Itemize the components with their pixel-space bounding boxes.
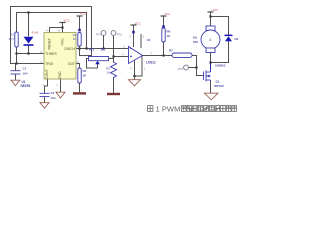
junction dot (210,16): [209, 15, 211, 17]
wire C2 stub from CONT pin: [45, 79, 48, 103]
svg-text:VCC: VCC: [80, 12, 87, 16]
caption char 4: [193, 106, 198, 112]
junction dot (196,67): [195, 66, 197, 68]
svg-text:1K: 1K: [106, 71, 110, 75]
capacitor C2: [40, 93, 50, 96]
svg-text:VCC: VCC: [135, 22, 142, 26]
capacitor C1: [11, 71, 21, 74]
op-amp U2 triangle: [129, 47, 143, 64]
svg-text:+12V: +12V: [211, 8, 218, 12]
wire OUT pin to R3: [76, 64, 80, 69]
wire power flag F2 stem: [79, 17, 81, 32]
svg-text:R3: R3: [83, 69, 87, 73]
svg-text:4K7: 4K7: [9, 37, 15, 41]
power flag F4 (R6 top): [161, 12, 172, 28]
wire D1 top drop: [28, 13, 30, 37]
svg-text:CONT: CONT: [45, 69, 49, 79]
svg-text:TRIG: TRIG: [45, 62, 53, 66]
wire pot wiper loop: [87, 59, 98, 69]
pad at R2 top: [78, 29, 81, 32]
wire motor power flag F5 stem: [210, 13, 212, 27]
svg-text:R1: R1: [10, 33, 14, 37]
terminal TP1: [101, 31, 106, 36]
wire outer loop left+top: [11, 7, 92, 64]
pad at opamp power pin: [132, 31, 135, 34]
wire opamp power stem: [133, 26, 135, 47]
svg-text:M1: M1: [193, 36, 197, 40]
junction dot (62,27): [61, 26, 63, 28]
ground G5 below mosfet: [205, 93, 219, 100]
wire gate lead: [197, 75, 204, 77]
caption char 9: [221, 106, 226, 112]
caption char 5: [198, 106, 203, 112]
pad at R6 top: [162, 25, 165, 28]
svg-text:LM311: LM311: [146, 61, 156, 65]
junction dot (163,55): [162, 54, 164, 56]
wire DISCH net y48: [76, 48, 128, 50]
junction dot (113,56): [112, 55, 114, 57]
wire R3 bottom to bar ground: [79, 83, 81, 92]
wire outer loop right vertical: [91, 7, 93, 56]
ground G1 below C1: [11, 80, 20, 85]
ground G3 below C2: [40, 103, 49, 109]
terminal TP2: [111, 31, 116, 36]
wire R2 vertical through to y55: [79, 46, 81, 56]
svg-text:Q1: Q1: [216, 80, 220, 84]
svg-text:D2: D2: [235, 37, 239, 41]
svg-text:TP3: TP3: [177, 67, 183, 71]
junction dot (16,53): [15, 52, 17, 54]
caption char 3: [187, 106, 192, 112]
svg-text:R7: R7: [169, 49, 173, 53]
svg-text:1 PWM: 1 PWM: [156, 105, 181, 114]
IC U1 NE555 body: [44, 33, 76, 80]
wire opamp plus input y56: [114, 56, 129, 58]
wire motor bottom to junction: [210, 53, 212, 71]
wire pot right stub: [109, 58, 114, 60]
svg-text:VCC: VCC: [64, 19, 71, 23]
motor M1: [201, 26, 220, 53]
wire TRIG net y63: [11, 63, 45, 65]
wire opamp output to R7: [143, 55, 173, 57]
svg-text:104: 104: [23, 72, 28, 76]
opamp minus mark: [130, 48, 132, 50]
svg-text:1N5822: 1N5822: [215, 64, 226, 68]
wire TP1 stem: [103, 36, 105, 49]
resistor R1: [15, 32, 18, 47]
power flag F2 (R2 top): [77, 12, 88, 32]
resistor R2: [78, 33, 81, 47]
svg-text:4148: 4148: [32, 31, 39, 35]
wire mosfet source to ground: [210, 82, 212, 93]
svg-text:NE555: NE555: [21, 84, 31, 88]
caption char 11: [232, 106, 237, 112]
svg-text:1K: 1K: [101, 48, 106, 52]
svg-text:OUT: OUT: [68, 62, 75, 66]
resistor R6: [162, 28, 165, 42]
wire power flag F1 stem: [62, 23, 64, 28]
svg-text:TP1: TP1: [95, 33, 101, 37]
svg-text:550: 550: [193, 40, 198, 44]
wire THRES net y53: [17, 46, 45, 64]
wire inner loop right vertical: [86, 13, 88, 49]
wire opamp gnd pin drops: [135, 57, 143, 80]
svg-text:VCC: VCC: [164, 12, 171, 16]
wire R7 right corner down: [192, 56, 197, 76]
bar ground B2 below R5: [107, 93, 120, 95]
svg-text:C1: C1: [23, 67, 27, 71]
junction dot (210,62): [209, 61, 211, 63]
transistor Q1 mosfet: [204, 63, 211, 83]
resistor R3: [78, 68, 81, 83]
wire opamp pin5 stub: [140, 35, 142, 48]
svg-text:R6: R6: [167, 30, 171, 34]
wire TP3 to gate node: [189, 67, 197, 69]
caption char 7: [209, 106, 214, 112]
svg-text:GND: GND: [58, 71, 62, 79]
power flag F3 (opamp): [131, 22, 142, 34]
resistor R7: [172, 53, 192, 57]
svg-text:TP2: TP2: [117, 33, 123, 37]
junction dot (16,63): [15, 62, 17, 64]
mosfet arrow: [207, 75, 210, 78]
terminal TP3: [184, 65, 189, 70]
svg-text:W1: W1: [89, 48, 94, 52]
wire R6 bottom junction: [163, 42, 165, 56]
wire motor top rail: [211, 17, 229, 36]
wire pot left stub: [88, 56, 90, 57]
caption char 8: [215, 106, 220, 112]
junction dot (86,48): [85, 47, 87, 49]
bar ground B1 below R3: [73, 92, 86, 94]
wire R5 bottom to bar ground: [113, 79, 115, 93]
caption: figure title "图1 PWM调速式驱动电路原理图": [148, 106, 237, 112]
power flag F5 (motor): [208, 8, 219, 12]
junction dot (28,53): [27, 52, 29, 54]
svg-text:1K: 1K: [73, 37, 77, 41]
wire GND pin stub: [60, 79, 62, 92]
caption char 2: [181, 106, 186, 112]
ground G2 below 555 GND pin: [56, 92, 65, 98]
svg-text:U2: U2: [147, 38, 151, 42]
junction dot (103,48): [102, 47, 104, 49]
caption char 6: [204, 106, 209, 112]
potentiometer W1: [89, 57, 109, 65]
junction dot (28,12): [27, 11, 29, 13]
wire power flag F4 stem to R6: [163, 17, 165, 29]
wire 555 reset/vcc top: [50, 28, 63, 33]
wire TP2 stem: [113, 36, 115, 63]
caption char 10: [226, 106, 231, 112]
svg-text:DISCH: DISCH: [64, 47, 75, 51]
wire diode bottom rail: [211, 42, 229, 63]
svg-text:RESET: RESET: [48, 38, 52, 49]
diode D1: [24, 37, 34, 46]
wire y55 rail: [80, 55, 92, 57]
svg-text:VCC: VCC: [61, 38, 65, 46]
svg-text:C2: C2: [51, 91, 55, 95]
power flag F1 VCC (555): [60, 19, 71, 23]
svg-text:10n: 10n: [51, 96, 56, 100]
svg-text:IRF540: IRF540: [214, 84, 224, 88]
wire C1 bottom to ground: [16, 64, 17, 81]
svg-text:THRES: THRES: [45, 52, 57, 56]
resistor R5 zigzag: [111, 62, 117, 79]
junction dot (134,76): [133, 75, 135, 77]
ground G4 below opamp: [129, 80, 141, 86]
wire inner loop top: [17, 13, 87, 33]
opamp plus mark: [130, 55, 132, 57]
diode D2 flyback: [225, 35, 233, 42]
caption char 1 (figure label): [148, 106, 153, 112]
junction dot (79,48): [78, 47, 80, 49]
